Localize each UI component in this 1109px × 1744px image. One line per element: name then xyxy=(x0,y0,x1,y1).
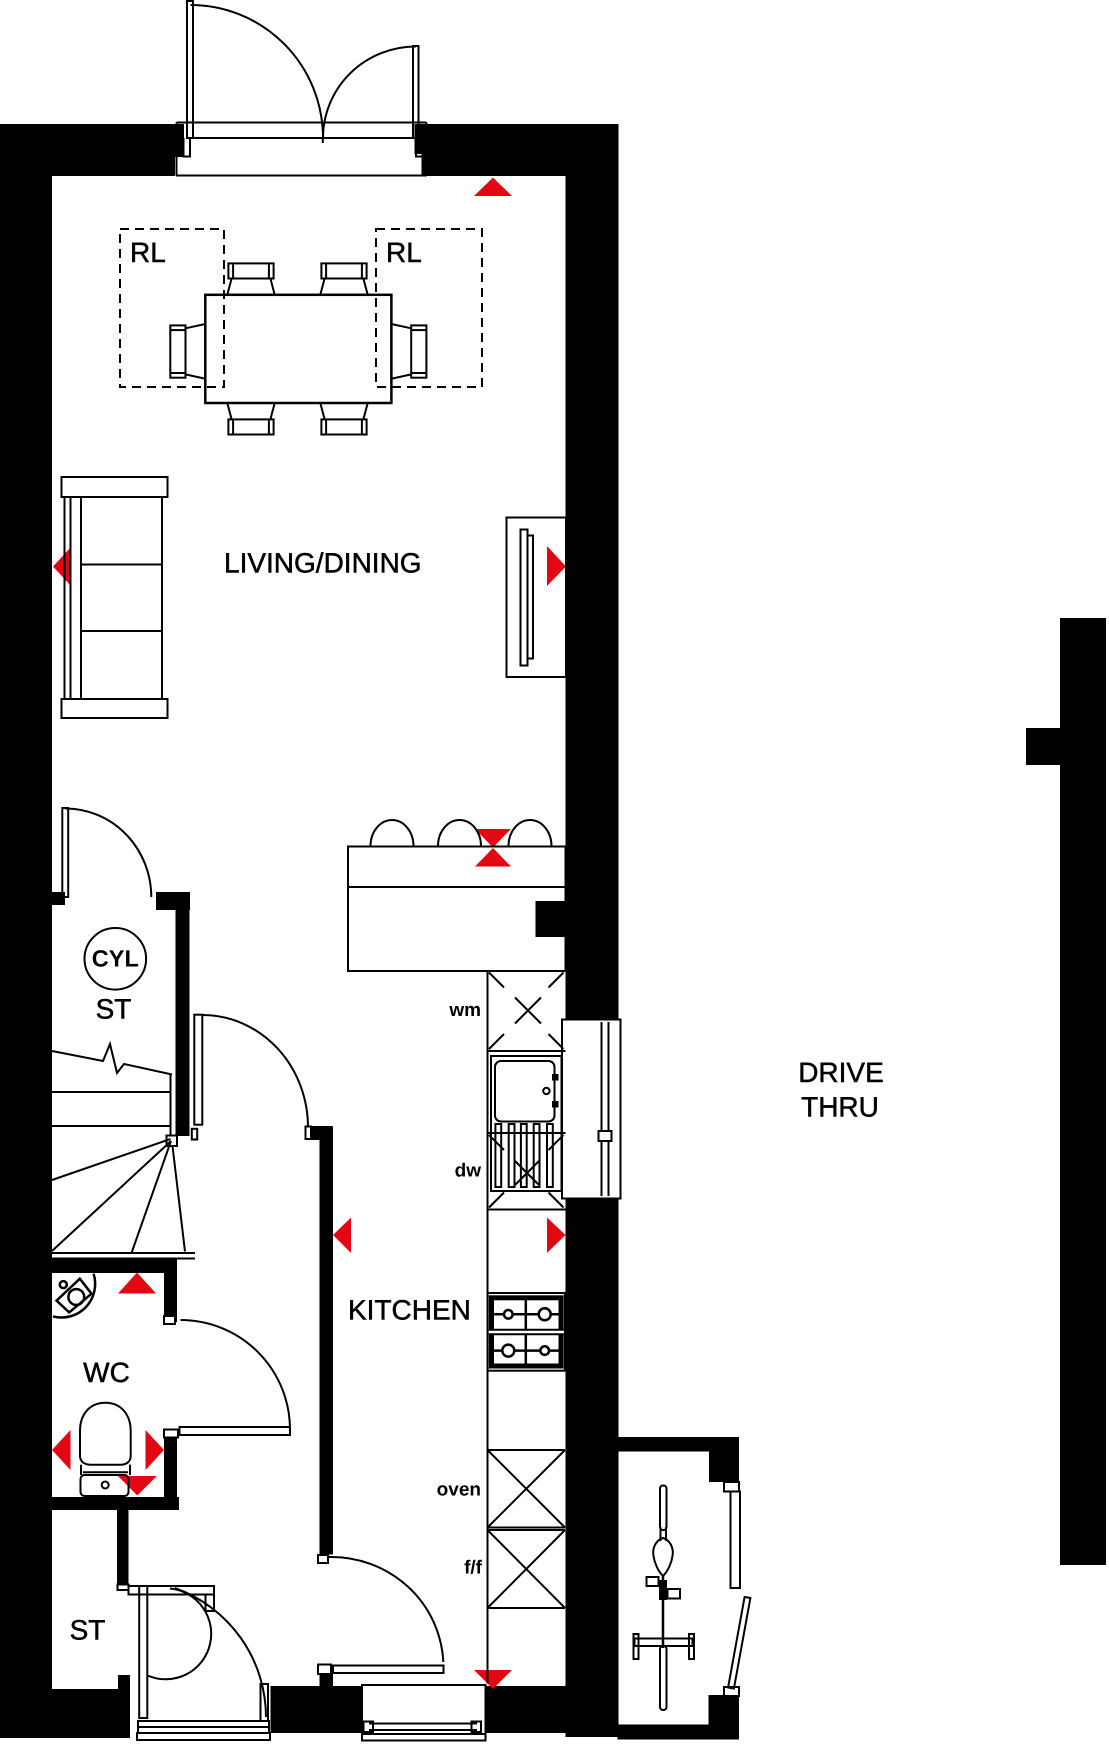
entrance door swing arc xyxy=(175,1588,266,1717)
BOTTOM WINDOW xyxy=(362,1685,486,1741)
bottom window frame xyxy=(362,1685,486,1741)
wall left xyxy=(0,176,52,1689)
svg-text:LIVING/DINING: LIVING/DINING xyxy=(224,548,422,579)
ST DOOR ASSEMBLY bottom-left xyxy=(118,1585,271,1741)
wall store-top xyxy=(619,1437,740,1452)
window meeting block xyxy=(599,1131,612,1141)
hall door strike head xyxy=(311,1126,333,1140)
chair top-1 seat xyxy=(227,279,274,295)
RIGHT WINDOW xyxy=(562,1020,621,1199)
st door frame vertical xyxy=(139,1586,147,1718)
hob burner small 2 xyxy=(540,1346,549,1355)
wc door leaf hinge block xyxy=(164,1430,178,1438)
stairs newel post xyxy=(167,1136,178,1147)
svg-text:THRU: THRU xyxy=(801,1091,879,1122)
bottom window end block right xyxy=(472,1722,482,1733)
st wall end cap xyxy=(118,1585,129,1591)
wall bottom-mid2 xyxy=(486,1686,566,1733)
arrow sofa-wall left xyxy=(53,547,71,586)
kitchen door leaf xyxy=(333,1666,444,1674)
WC FIXTURES xyxy=(53,1274,290,1496)
counter front edge xyxy=(487,971,489,1684)
STAIRS xyxy=(52,1044,195,1259)
sink bowl xyxy=(495,1061,555,1122)
RL dashed box left xyxy=(120,229,224,387)
wall closet-stairs xyxy=(176,892,190,1136)
arrow island bowtie lower xyxy=(475,848,511,867)
wall stub drive-thru xyxy=(1026,728,1060,765)
tv panel xyxy=(528,536,534,659)
french door opening side left xyxy=(176,123,178,176)
french door opening side right xyxy=(426,123,428,176)
toilet bowl xyxy=(80,1403,131,1465)
KITCHEN RUN xyxy=(488,971,566,1684)
bottom window end block left xyxy=(364,1722,374,1733)
dw box bottom line xyxy=(488,1209,566,1211)
wall kitchen-inner xyxy=(320,1128,334,1555)
arrow island bowtie upper xyxy=(475,829,511,848)
hob burner large 2 xyxy=(502,1345,514,1357)
window glazing line a xyxy=(601,1022,603,1196)
hall door strike notch xyxy=(306,1127,312,1140)
svg-text:RL: RL xyxy=(130,237,166,268)
sink faucet xyxy=(543,1088,549,1094)
island counter edge xyxy=(348,886,566,888)
sofa body xyxy=(65,497,163,699)
kitchen door hinge block bottom xyxy=(318,1665,331,1675)
sofa seat divider 1 xyxy=(81,564,162,566)
store door leaf diagonal xyxy=(728,1597,750,1689)
oven box xyxy=(488,1450,566,1528)
french door right leaf xyxy=(413,46,419,138)
svg-text:RL: RL xyxy=(386,237,422,268)
CYL CLOSET xyxy=(62,808,151,990)
island worktop xyxy=(348,847,566,972)
bike rear wheel xyxy=(660,1486,667,1531)
svg-text:CYL: CYL xyxy=(92,946,139,972)
wall stub cyl-left xyxy=(50,892,65,905)
store window xyxy=(731,1492,741,1589)
arrow wc down xyxy=(118,1476,157,1496)
LIVING-HALL DOOR xyxy=(192,1015,333,1140)
chair bottom-1 backrest xyxy=(228,419,273,434)
arrow kitchen left xyxy=(333,1218,351,1254)
bottom window glazing line b xyxy=(369,1729,477,1731)
wall top-left jamb step xyxy=(175,124,184,157)
wall stub kitchen-inner-bottom xyxy=(320,1674,334,1686)
french door sill mid line xyxy=(187,137,419,139)
hob divider white band xyxy=(489,1330,564,1334)
tv cabinet xyxy=(507,518,567,678)
KITCHEN-HALL DOOR xyxy=(318,1555,444,1674)
TV UNIT xyxy=(507,518,567,678)
RL dashed box right xyxy=(376,229,482,387)
wall pier wc-door-lower xyxy=(164,1434,177,1497)
wc door leaf xyxy=(180,1427,291,1435)
french door right jamb foot xyxy=(416,138,423,157)
f/f box xyxy=(488,1530,566,1608)
entrance threshold mid line xyxy=(138,1726,269,1728)
chair right backrest xyxy=(411,325,426,377)
bike pedal left xyxy=(647,1577,659,1586)
BIKE STORE xyxy=(634,1482,751,1710)
st door top bar end piece xyxy=(206,1595,215,1612)
toilet side connector left xyxy=(80,1465,82,1475)
arrow wc right xyxy=(146,1430,165,1470)
cyl door leaf xyxy=(62,808,68,897)
svg-text:f/f: f/f xyxy=(464,1558,483,1579)
hob grid xyxy=(494,1298,559,1366)
wall pier wc-door-upper xyxy=(164,1273,177,1322)
bottom window step line xyxy=(362,1733,486,1735)
store window foot block xyxy=(724,1687,739,1696)
stool 2 xyxy=(438,820,481,846)
bike front wheel xyxy=(660,1646,667,1710)
entrance step xyxy=(137,1733,270,1740)
wall bottom-mid1 xyxy=(271,1686,363,1733)
wall wc-top xyxy=(52,1259,177,1274)
svg-text:wm: wm xyxy=(448,1000,481,1021)
sofa back line xyxy=(70,497,72,699)
french door centre tick xyxy=(322,138,324,143)
store window head block xyxy=(724,1482,739,1492)
basin tap xyxy=(60,1281,67,1288)
stool 1 xyxy=(371,820,414,846)
sink tap dot 2 xyxy=(553,1102,558,1107)
toilet side connector right xyxy=(129,1465,131,1475)
wall top-left xyxy=(0,124,175,176)
bike saddle xyxy=(653,1538,673,1576)
window glazing line b xyxy=(608,1022,610,1196)
basin bowl square xyxy=(57,1279,92,1313)
sofa arm top xyxy=(62,477,168,497)
chair top-1 backrest xyxy=(228,263,273,278)
SOFA xyxy=(62,477,168,718)
hob outer xyxy=(488,1293,565,1371)
wall block store-topright xyxy=(709,1452,739,1483)
hob burner small 1 xyxy=(504,1310,513,1319)
entrance threshold xyxy=(138,1721,269,1733)
hob burner large 1 xyxy=(539,1308,551,1320)
hob divider lines xyxy=(489,1329,564,1331)
french door left jamb foot xyxy=(184,138,191,157)
kitchen door hinge block top xyxy=(318,1555,328,1563)
chair left backrest xyxy=(170,325,185,377)
chair bottom-2 seat xyxy=(320,403,367,419)
sink drainer bars xyxy=(495,1124,501,1187)
wm cross marks xyxy=(489,973,564,1050)
dw box top line xyxy=(488,1132,566,1134)
kitchen door swing arc xyxy=(329,1557,443,1662)
stairs break line xyxy=(52,1044,172,1075)
arrow bottom down xyxy=(474,1670,512,1689)
stairs tread 2 xyxy=(52,1125,170,1127)
sofa arm bottom xyxy=(62,699,168,718)
svg-text:oven: oven xyxy=(437,1480,481,1501)
KITCHEN ISLAND xyxy=(348,820,566,971)
bike handlebar xyxy=(635,1639,693,1647)
bike pedal right xyxy=(668,1589,681,1599)
arrow tv-wall right xyxy=(547,546,566,586)
chair bottom-1 seat xyxy=(227,403,274,419)
wall stub st-door xyxy=(118,1675,130,1690)
wall top-right xyxy=(422,124,619,176)
wc door hinge block xyxy=(164,1316,175,1324)
toilet seat line xyxy=(83,1471,128,1473)
hob inner right line xyxy=(560,1296,562,1369)
stairs bottom edge 1 xyxy=(52,1252,195,1254)
french door sill top line xyxy=(177,122,427,124)
svg-text:DRIVE: DRIVE xyxy=(798,1057,884,1088)
bike grip left xyxy=(634,1634,639,1659)
stairs edge slant xyxy=(173,1146,186,1252)
wall bottom-left xyxy=(0,1689,130,1738)
cylinder circle xyxy=(85,928,147,990)
svg-text:KITCHEN: KITCHEN xyxy=(348,1295,471,1326)
french door right swing arc xyxy=(323,47,416,139)
wall block store-bottomright xyxy=(709,1695,740,1740)
svg-text:WC: WC xyxy=(83,1357,130,1388)
chair bottom-2 backrest xyxy=(321,419,366,434)
wall pier island xyxy=(536,901,566,937)
french door left swing arc xyxy=(191,5,324,138)
stairs winder 2 xyxy=(52,1141,171,1251)
sofa seat divider 2 xyxy=(81,630,162,632)
cyl door swing arc xyxy=(65,809,151,898)
wall pier cyl-right xyxy=(156,892,190,910)
toilet button xyxy=(102,1482,109,1489)
svg-text:ST: ST xyxy=(70,1615,106,1646)
arrow wc left xyxy=(52,1430,71,1470)
bottom window glazing line a xyxy=(369,1723,477,1725)
hall door hinge block xyxy=(192,1129,197,1140)
chair top-2 backrest xyxy=(321,263,366,278)
st door top bar xyxy=(129,1586,215,1595)
sofa back cushion line xyxy=(80,497,82,699)
sink tap dot 1 xyxy=(553,1075,558,1080)
hob inner bold frame xyxy=(492,1298,562,1366)
svg-text:dw: dw xyxy=(455,1161,482,1182)
entrance door frame right xyxy=(261,1684,269,1721)
stairs winder 1 xyxy=(52,1139,171,1180)
stairs winder 3 xyxy=(132,1141,172,1253)
french door left leaf xyxy=(187,1,193,138)
wc door swing arc xyxy=(181,1320,291,1430)
bike frame xyxy=(662,1576,665,1648)
sink unit xyxy=(491,1056,562,1191)
wall right upper xyxy=(566,176,619,1019)
bike fork lines xyxy=(660,1527,662,1541)
stairs tread 1 xyxy=(52,1091,170,1093)
stairs right edge xyxy=(170,1075,172,1136)
arrow top-wall up xyxy=(474,178,512,197)
FRENCH DOORS top xyxy=(176,1,427,176)
wall top-right jamb step xyxy=(415,124,422,154)
hall door leaf xyxy=(194,1015,202,1125)
st door swing arc small xyxy=(148,1589,212,1680)
stairs bottom edge 2 xyxy=(52,1258,195,1260)
wall right lower xyxy=(566,1198,619,1737)
dw cross marks xyxy=(489,1135,564,1208)
basin arc xyxy=(53,1274,95,1318)
dining table xyxy=(205,295,391,403)
wall drive-thru xyxy=(1060,618,1106,1565)
wall st-right xyxy=(117,1510,129,1588)
basin circle xyxy=(68,1289,84,1305)
tv screen xyxy=(521,530,528,666)
arrow stairs up xyxy=(118,1273,156,1294)
wall store-bottom xyxy=(618,1725,709,1740)
stool 3 xyxy=(509,820,552,846)
bike grip right xyxy=(689,1634,694,1659)
chair right seat xyxy=(391,324,411,379)
arrow kitchen right xyxy=(547,1218,566,1254)
wall wc-bottom xyxy=(52,1497,179,1510)
chair top-2 seat xyxy=(320,279,367,295)
french door sill bottom line xyxy=(176,175,427,177)
RED ARROWS xyxy=(52,178,566,1690)
hall door swing arc xyxy=(203,1015,309,1128)
DINING SET xyxy=(170,263,426,434)
svg-text:ST: ST xyxy=(96,994,132,1025)
toilet cistern xyxy=(81,1475,129,1496)
chair left seat xyxy=(186,324,206,379)
wm box bottom line xyxy=(488,1050,566,1052)
bike crank xyxy=(659,1580,667,1600)
window frame right xyxy=(562,1020,621,1199)
